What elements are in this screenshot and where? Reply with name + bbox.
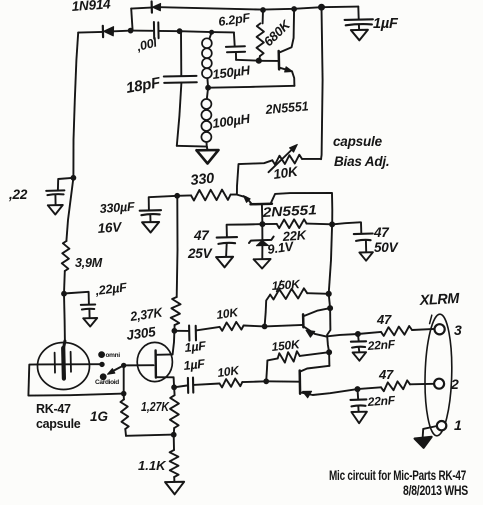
node Q1 collector top junction bbox=[292, 7, 297, 12]
label 1uF supply bbox=[373, 16, 399, 32]
capacitor C8 47uF 25V bbox=[217, 224, 263, 256]
svg-text:50V: 50V bbox=[374, 240, 399, 255]
node B junction bbox=[177, 29, 182, 34]
svg-text:47: 47 bbox=[376, 312, 392, 327]
svg-text:25V: 25V bbox=[187, 246, 213, 261]
svg-text:3,9M: 3,9M bbox=[75, 256, 103, 270]
svg-text:8/8/2013 WHS: 8/8/2013 WHS bbox=[403, 483, 468, 498]
svg-text:2N5551: 2N5551 bbox=[261, 202, 317, 220]
label 47 upper bbox=[376, 312, 392, 327]
svg-text:capsule: capsule bbox=[333, 134, 383, 149]
node .22 junction bbox=[71, 175, 76, 180]
resistor R4 2.37K bbox=[171, 196, 181, 331]
capacitor C4 1uF supply bbox=[345, 7, 373, 30]
wire 6.2pF to Q1 base node bbox=[236, 59, 259, 62]
label 1uF upper bbox=[184, 339, 207, 355]
node Q4 base junction bbox=[264, 379, 269, 384]
wire 1G bottom to bottom node bbox=[126, 435, 174, 436]
resistor R1 680K bbox=[257, 10, 264, 61]
transistor Q4 output lower bbox=[266, 366, 357, 398]
wire node A to C1 bbox=[131, 30, 153, 32]
label 6.2pF bbox=[217, 11, 251, 29]
label 1N914 bbox=[71, 0, 111, 14]
wire 47 to XLR pin2 bbox=[410, 383, 434, 386]
node source junction bbox=[172, 385, 177, 390]
node rail 150K junction bbox=[326, 291, 331, 296]
ground under C13 bbox=[351, 412, 367, 424]
svg-text:1.1K: 1.1K bbox=[138, 458, 167, 473]
label pin 3 bbox=[454, 322, 462, 338]
label 1G bbox=[90, 409, 109, 424]
svg-text:capsule: capsule bbox=[36, 417, 81, 431]
label 2N5551 (Q1) bbox=[264, 98, 309, 117]
capsule RK-47 body bbox=[38, 343, 90, 390]
JFET J305 channel and leads bbox=[156, 331, 175, 388]
wire corner top-left down to D2 node bbox=[131, 9, 132, 31]
label 50V bbox=[374, 240, 399, 255]
wire Q1 emitter to coil junction bbox=[209, 86, 295, 88]
capacitor C9 47uF 50V bbox=[332, 222, 373, 252]
capacitor C6 .22uF bbox=[64, 292, 95, 318]
ground under C5 bbox=[48, 205, 63, 215]
label 150uH bbox=[212, 62, 252, 82]
svg-text:XLRM: XLRM bbox=[418, 291, 460, 309]
label date bbox=[403, 483, 468, 498]
capacitor C12 1uF lower bbox=[174, 378, 219, 393]
label capsule bbox=[36, 417, 81, 431]
label 330uF bbox=[99, 200, 135, 216]
label 47 (25V cap) bbox=[193, 228, 210, 243]
label 18pF bbox=[125, 74, 163, 97]
wire 10K to Q3 base node bbox=[244, 325, 265, 328]
wire Q3 emitter output bbox=[326, 334, 358, 336]
label J305 bbox=[125, 324, 157, 343]
label 47 lower bbox=[378, 367, 394, 382]
node 680K top junction bbox=[261, 8, 266, 13]
node 22nF lower junction bbox=[355, 387, 360, 392]
label 2N5551 (Q2) bbox=[261, 202, 317, 220]
label capsule Bias Adj line1 bbox=[333, 134, 383, 149]
XLR pin 1 bbox=[437, 421, 446, 430]
wire left rail upper bbox=[73, 33, 78, 178]
ground under C4 bbox=[351, 30, 368, 41]
label title bbox=[329, 468, 466, 483]
ground under C7 bbox=[142, 222, 159, 233]
wire 18pF bottom to coil ground node bbox=[177, 145, 207, 148]
capacitor C1 .001 bbox=[154, 22, 159, 39]
node Q3 base junction bbox=[262, 324, 267, 329]
label .22uF bbox=[94, 280, 128, 298]
node 22nF upper junction bbox=[355, 332, 360, 337]
label 22nF upper bbox=[366, 337, 396, 353]
label capsule Bias Adj line2 bbox=[334, 154, 389, 169]
node gate junction bbox=[122, 363, 126, 367]
ground under C6 bbox=[83, 318, 97, 327]
resistor R5 1.27K bbox=[170, 387, 179, 434]
label 2.37K bbox=[128, 304, 164, 324]
capacitor C7 330uF 16V bbox=[140, 196, 178, 222]
ground under C9 bbox=[359, 252, 373, 261]
label 10K upper bbox=[215, 305, 240, 322]
svg-text:150K: 150K bbox=[271, 277, 301, 293]
transistor Q1 2N5551 bbox=[259, 9, 295, 86]
capsule diaphragm plates bbox=[55, 341, 71, 379]
wire long vertical from top rail to pot bbox=[321, 7, 323, 159]
node A junction bbox=[128, 28, 133, 33]
resistor R2 3.9M bbox=[62, 241, 70, 271]
node bottom junction bbox=[171, 432, 176, 437]
wire pot right terminal bbox=[302, 158, 321, 160]
wire C1 to node B bbox=[159, 30, 180, 32]
resistor R3 1G bbox=[121, 394, 129, 436]
label 150K upper bbox=[271, 277, 301, 293]
ground under zener bbox=[254, 259, 271, 269]
svg-text:47: 47 bbox=[193, 228, 210, 243]
svg-text:16V: 16V bbox=[97, 219, 123, 236]
svg-text:1µF: 1µF bbox=[183, 357, 206, 373]
label RK-47 bbox=[36, 402, 71, 416]
wire 3.9M to .22uF node bbox=[63, 271, 66, 294]
node coil top junction bbox=[210, 30, 214, 34]
label 16V bbox=[97, 219, 123, 236]
XLR pin 3 bbox=[430, 315, 445, 334]
resistor R6 1.1K bbox=[170, 435, 179, 482]
label .22 bbox=[8, 187, 28, 202]
svg-text:2: 2 bbox=[450, 376, 459, 392]
wire gate node down to 1G bbox=[123, 365, 125, 393]
capacitor C13 22nF lower bbox=[351, 389, 367, 411]
svg-text:Mic circuit for Mic-Parts RK-4: Mic circuit for Mic-Parts RK-47 bbox=[329, 468, 466, 483]
resistor R10 150K upper bbox=[265, 288, 329, 326]
switch omni contact bbox=[99, 352, 121, 359]
label 22K bbox=[281, 227, 308, 244]
resistor R11 47 upper bbox=[358, 326, 412, 336]
svg-text:1µF: 1µF bbox=[184, 339, 207, 355]
svg-text:RK-47: RK-47 bbox=[36, 402, 71, 416]
svg-text:1,27K: 1,27K bbox=[141, 400, 170, 414]
label pin 1 bbox=[454, 417, 462, 433]
capacitor C11 22nF upper bbox=[351, 334, 366, 352]
wire pin1 to ground bbox=[423, 426, 437, 438]
node 1G top junction bbox=[121, 391, 126, 396]
label 330 bbox=[190, 171, 215, 189]
node drain junction bbox=[172, 328, 177, 333]
ground XLR pin1 bbox=[415, 437, 432, 448]
svg-text:47: 47 bbox=[373, 225, 390, 240]
resistor R14 47 lower bbox=[381, 380, 410, 391]
label 150K lower bbox=[271, 337, 302, 354]
node rail 150K lower junction bbox=[327, 350, 332, 355]
node 330 left junction bbox=[175, 193, 180, 198]
node rail top junction bbox=[330, 222, 335, 227]
zener diode 9.1V bbox=[249, 224, 274, 258]
label 1.1K bbox=[138, 458, 167, 473]
transistor Q3 output upper bbox=[265, 308, 330, 337]
label .001 bbox=[134, 35, 159, 54]
switch wiper arrow bbox=[108, 365, 124, 374]
XLR pin 2 bbox=[434, 379, 444, 389]
ground under C11 bbox=[353, 352, 367, 361]
node .22uF junction bbox=[62, 291, 67, 296]
node top rail right blob bbox=[319, 4, 325, 10]
inductor L1 150uH bbox=[202, 32, 212, 87]
label 3.9M bbox=[75, 256, 103, 270]
wire gate node to JFET bbox=[124, 364, 154, 366]
label 1uF lower bbox=[183, 357, 206, 373]
node Q1 base junction bbox=[256, 58, 261, 63]
ground under L2 bbox=[197, 147, 219, 164]
label XLR male bbox=[418, 291, 460, 309]
wire capsule center line bbox=[38, 363, 102, 365]
node Q3 collector junction bbox=[328, 306, 333, 311]
wire 10K to Q4 base node bbox=[242, 380, 266, 383]
ground under 1.1K bbox=[165, 482, 184, 495]
wire left rail to 3.9M bbox=[66, 178, 73, 241]
transistor Q2 2N5551 bbox=[237, 193, 332, 225]
label 680K bbox=[261, 16, 295, 49]
resistor R8 22K bbox=[262, 219, 332, 228]
svg-text:Bias Adj.: Bias Adj. bbox=[334, 154, 389, 169]
capacitor C10 1uF upper bbox=[174, 326, 219, 341]
svg-text:22K: 22K bbox=[281, 227, 308, 244]
inductor L2 100uH bbox=[201, 88, 211, 147]
label 25V bbox=[187, 246, 213, 261]
label 10K lower bbox=[216, 363, 241, 380]
potentiometer 10K capsule bias bbox=[269, 144, 303, 172]
svg-text:330: 330 bbox=[190, 171, 215, 189]
ground under C8 bbox=[216, 257, 233, 268]
diode D2 1N914 bbox=[103, 26, 114, 37]
label 22nF lower bbox=[366, 393, 396, 409]
resistor R7 330 bbox=[177, 190, 237, 201]
capacitor C2 18pF bbox=[164, 31, 197, 145]
label 100uH bbox=[211, 111, 251, 131]
svg-text:omni: omni bbox=[106, 352, 121, 359]
wire coil tap to 6.2pF corner bbox=[212, 31, 234, 33]
node Q2 base junction bbox=[260, 222, 265, 227]
wire left rail to capsule bbox=[63, 294, 66, 341]
switch cardioid contact bbox=[95, 374, 119, 386]
wire 22nF node to 47 lower bbox=[358, 387, 382, 389]
label pin 2 bbox=[450, 376, 459, 392]
wire capsule backplate loop bbox=[28, 364, 123, 395]
label 1.27K bbox=[141, 400, 170, 414]
wire pot left terminal bbox=[237, 160, 272, 194]
label 10K pot bbox=[272, 164, 299, 182]
wire top supply rail bbox=[131, 7, 358, 10]
node L1-L2 junction bbox=[206, 85, 211, 90]
svg-text:47: 47 bbox=[378, 367, 394, 382]
svg-text:1: 1 bbox=[454, 417, 462, 433]
diode D1 1N914 bbox=[152, 2, 161, 13]
svg-text:330µF: 330µF bbox=[99, 200, 135, 216]
svg-text:22nF: 22nF bbox=[366, 393, 396, 409]
switch common contact bbox=[100, 362, 104, 366]
wire D2 to node A bbox=[114, 30, 131, 33]
wire node B to coil tap bbox=[180, 30, 212, 33]
svg-text:3: 3 bbox=[454, 322, 462, 338]
resistor R12 150K lower bbox=[266, 351, 329, 381]
XLR connector body bbox=[424, 314, 454, 436]
wire 47 to XLR pin3 bbox=[412, 329, 434, 330]
svg-text:Cardioid: Cardioid bbox=[95, 379, 119, 386]
JFET J305 body bbox=[137, 342, 172, 381]
wire second rail left segment bbox=[78, 31, 102, 34]
wire rail vertical bbox=[327, 224, 332, 365]
svg-text:1G: 1G bbox=[90, 409, 109, 424]
svg-text:,22: ,22 bbox=[8, 187, 28, 202]
label 47 (50V cap) bbox=[373, 225, 390, 240]
svg-text:22nF: 22nF bbox=[366, 337, 396, 353]
resistor R13 10K lower bbox=[220, 379, 243, 388]
label 9.1V bbox=[266, 238, 295, 257]
svg-text:1µF: 1µF bbox=[373, 16, 399, 32]
capacitor C3 6.2pF bbox=[226, 32, 245, 59]
capacitor C5 .22 bbox=[46, 178, 73, 205]
resistor R9 10K upper bbox=[220, 322, 244, 331]
